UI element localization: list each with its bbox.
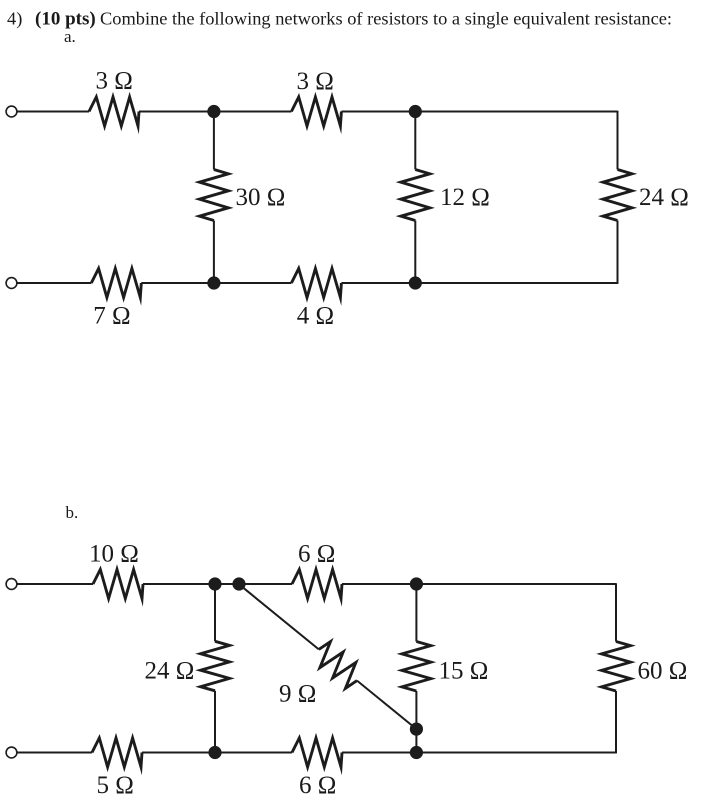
wire: b bottom rail node I to R 6ohm bottom xyxy=(215,752,292,754)
wire: b diagonal lead from node F to 9ohm xyxy=(239,584,319,649)
wire: b top rail from terminal to R 10ohm xyxy=(17,583,93,585)
resistor 9ohm (diagonal) with leads xyxy=(319,642,357,689)
svg-text:4): 4) xyxy=(7,9,22,30)
wire: a right branch top vertical xyxy=(617,111,619,170)
svg-text:Combine the following networks: Combine the following networks of resist… xyxy=(100,9,672,29)
wire: b top rail node E to node F xyxy=(215,583,239,585)
wire: a top rail from node A to second R 3ohm xyxy=(214,111,292,113)
resistor 60ohm (right branch) xyxy=(602,642,631,692)
wire: a top rail from R 3ohm to node A xyxy=(139,111,214,113)
resistor 4ohm (bottom-middle) xyxy=(291,269,341,298)
wire: a top rail from second R 3ohm to node B xyxy=(341,111,415,113)
svg-text:12 Ω: 12 Ω xyxy=(440,184,490,211)
wire: b right branch top vertical xyxy=(615,583,617,641)
wire: a bottom rail from node D to right corner xyxy=(415,282,618,284)
wire: b 24ohm branch top lead xyxy=(214,584,216,641)
wire: b bottom rail R 5ohm to node I xyxy=(142,752,215,754)
resistor 3ohm (top-middle), value 3 Ω xyxy=(291,97,341,126)
wire: b 15ohm branch top lead xyxy=(415,584,417,642)
node I (junction dot, bottom of 24ohm) xyxy=(208,746,221,759)
wire: a bottom rail from node C to R 4ohm xyxy=(214,282,292,284)
svg-text:a.: a. xyxy=(64,27,76,46)
resistor 24ohm (b middle branch) xyxy=(201,641,230,691)
resistor 24ohm (right branch) xyxy=(603,170,632,221)
resistor 10ohm xyxy=(93,570,143,599)
resistor 15ohm (branch) xyxy=(402,642,431,692)
terminal (bottom-left input b) xyxy=(6,747,17,758)
svg-text:15 Ω: 15 Ω xyxy=(439,658,489,685)
wire: a 30ohm branch top lead xyxy=(213,112,215,170)
wire: b diagonal lead from 9ohm to node H xyxy=(357,681,417,730)
svg-text:30 Ω: 30 Ω xyxy=(236,184,286,211)
node H (junction dot, diagonal meets 15ohm branch) xyxy=(410,723,423,736)
node F (junction dot, top of 9ohm diagonal) xyxy=(232,577,245,590)
svg-text:5 Ω: 5 Ω xyxy=(97,772,134,799)
terminal (bottom-left input) xyxy=(6,278,17,289)
wire: b bottom rail R 6ohm to node J xyxy=(342,752,416,754)
wire: a 12ohm branch top lead xyxy=(414,112,416,170)
wire: a right branch bottom vertical xyxy=(617,221,619,284)
resistor 12ohm (branch) xyxy=(401,170,430,221)
svg-text:9 Ω: 9 Ω xyxy=(279,681,316,708)
wire: a bottom rail from terminal to R 7ohm xyxy=(17,282,91,284)
terminal (top-left input b) xyxy=(6,579,17,590)
wire: b top rail node F to R 6ohm xyxy=(239,583,292,585)
node J (junction dot, bottom rail meets 15ohm/60ohm return) xyxy=(410,746,423,759)
resistor 6ohm (bottom) xyxy=(292,738,342,767)
wire: b right branch bottom vertical xyxy=(615,691,617,753)
resistor 30ohm (middle branch) xyxy=(199,170,228,221)
node B (junction dot, top of 12ohm) xyxy=(409,105,422,118)
terminal (top-left input) xyxy=(6,106,17,117)
wire: a bottom rail from R 7ohm to node C xyxy=(141,282,214,284)
node G (junction dot, top of 15ohm) xyxy=(410,577,423,590)
wire: b bottom rail node J to right corner xyxy=(416,752,616,754)
svg-text:7 Ω: 7 Ω xyxy=(93,303,130,330)
svg-text:24 Ω: 24 Ω xyxy=(639,184,689,211)
svg-text:b.: b. xyxy=(66,503,79,522)
svg-text:6 Ω: 6 Ω xyxy=(299,772,336,799)
resistor 3ohm (top-left), value 3 Ω xyxy=(89,97,139,126)
resistor 7ohm (bottom-left) xyxy=(91,269,141,298)
node C (junction dot, bottom of 30ohm) xyxy=(207,276,220,289)
wire: a top rail from terminal to R 3ohm xyxy=(17,111,89,113)
wire: a 30ohm branch bottom lead xyxy=(213,221,215,284)
resistor 6ohm (top) xyxy=(292,570,342,599)
svg-text:24 Ω: 24 Ω xyxy=(145,658,195,685)
svg-text:6 Ω: 6 Ω xyxy=(298,541,335,568)
svg-text:3 Ω: 3 Ω xyxy=(96,68,133,95)
wire: b top rail from R 10ohm to node E xyxy=(143,583,215,585)
svg-text:10 Ω: 10 Ω xyxy=(89,541,139,568)
node E (junction dot, top of 24ohm) xyxy=(208,577,221,590)
wire: b 24ohm branch bottom lead xyxy=(214,691,216,753)
wire: b bottom rail from terminal to R 5ohm xyxy=(17,752,92,754)
node D (junction dot, bottom of 12ohm) xyxy=(409,276,422,289)
wire: a 12ohm branch bottom lead xyxy=(414,221,416,284)
svg-text:60 Ω: 60 Ω xyxy=(638,658,688,685)
wire: b top rail node G to right corner xyxy=(416,583,616,585)
node A (junction dot, top of 30ohm) xyxy=(207,105,220,118)
wire: b 15ohm branch bottom lead through node H xyxy=(415,691,417,753)
wire: b top rail R 6ohm to node G xyxy=(342,583,416,585)
wire: a bottom rail from R 4ohm to node D xyxy=(341,282,415,284)
svg-text:3 Ω: 3 Ω xyxy=(297,68,334,95)
wire: a top rail from node B to right corner xyxy=(415,111,617,113)
svg-text:4 Ω: 4 Ω xyxy=(297,303,334,330)
resistor 5ohm xyxy=(92,738,142,767)
